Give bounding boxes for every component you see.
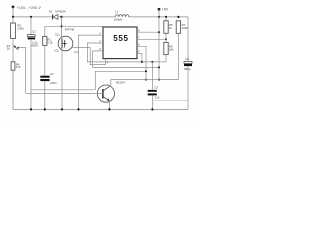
svg-text:IRF740: IRF740 (65, 27, 75, 31)
wire divider bottom to ground rail (13, 70, 188, 109)
svg-text:1k: 1k (169, 26, 173, 30)
wire drain lead (61, 37, 64, 39)
node junction rail/C2 (30, 16, 32, 18)
diode D1 UF4004 (49, 9, 66, 19)
node junction C2/ground rail (30, 108, 32, 110)
wire 555 pin4 stub to gate loop (90, 48, 105, 65)
svg-text:UF4004: UF4004 (55, 9, 66, 13)
node junction C1/ground rail (44, 108, 46, 110)
wire 555 pin8 (right top) (137, 31, 159, 33)
wire HV terminal stub (12, 7, 14, 17)
svg-text:220k: 220k (17, 27, 24, 31)
svg-text:G(1): G(1) (74, 52, 79, 54)
svg-text:C2: C2 (32, 30, 36, 34)
wire gate lead (71, 47, 90, 49)
wire top rail middle (drain node) (58, 16, 116, 18)
svg-text:1k: 1k (7, 47, 11, 51)
wire base feedback (26, 92, 103, 94)
node junction rail/R7 (177, 16, 179, 18)
wire drain branch (61, 17, 63, 37)
wire top rail left (HV) (13, 16, 52, 18)
node junction +5 line / H2 (158, 66, 160, 68)
svg-text:BC547: BC547 (116, 80, 125, 84)
svg-text:L1: L1 (115, 9, 119, 13)
svg-text:D(2): D(2) (55, 35, 60, 37)
node junction pin7/R5R6 (165, 38, 167, 40)
node junction rail/R2 (12, 16, 14, 18)
node junction rail/+5V (158, 16, 160, 18)
node junction drain/snubber (60, 25, 62, 27)
wire emitter (108, 101, 110, 110)
svg-text:555: 555 (113, 34, 128, 43)
svg-text:S(3): S(3) (54, 51, 59, 53)
node junction pin6/collector (145, 79, 147, 81)
wire source lead (61, 48, 63, 109)
wire faint lower link (152, 100, 188, 102)
svg-text:680µ: 680µ (184, 67, 191, 71)
svg-text:+100...+200 V: +100...+200 V (17, 6, 42, 10)
svg-text:+5V: +5V (162, 7, 169, 11)
node junction emitter/ground (108, 108, 110, 110)
node junction pin8/+5V line (158, 31, 160, 33)
svg-text:400V: 400V (31, 44, 38, 48)
wire R6 bottom (165, 55, 167, 62)
node junction +5 line / collector line (158, 79, 160, 81)
node junction pin5/bus (141, 61, 143, 63)
svg-text:100k: 100k (182, 26, 189, 30)
node junction source/ground rail (61, 108, 63, 110)
svg-text:2n2: 2n2 (155, 96, 160, 100)
node junction rail/R5 (165, 16, 167, 18)
wire 555 pin3 loop (left bottom) (93, 51, 159, 68)
resistor R6 10k (164, 42, 174, 54)
svg-text:10k: 10k (169, 47, 174, 51)
node junction C3/ground (151, 108, 153, 110)
wire collector (110, 80, 179, 87)
resistor R7 100k (176, 21, 188, 34)
svg-text:100n: 100n (50, 81, 57, 85)
svg-text:100µH: 100µH (114, 17, 123, 21)
wire top rail right (+5V) (129, 16, 188, 18)
svg-text:2.2k: 2.2k (47, 40, 53, 44)
wire 555 pin2 to timing bus (left mid) (87, 43, 166, 62)
node junction pin1 ground/rail (77, 108, 79, 110)
capacitor C1 100n (40, 72, 57, 109)
wire snubber top / reset wire (45, 25, 103, 27)
wire 555 pin6 (right third) (137, 46, 146, 79)
wire 555 pin7 (right second) (137, 38, 166, 40)
node +5V terminal (158, 8, 161, 11)
svg-text:D1: D1 (49, 9, 53, 13)
capacitor C3 2n2 (148, 62, 160, 110)
resistor R5 1k (164, 17, 173, 33)
resistor R1 2.2k (43, 37, 54, 46)
wire feedback tap (18, 48, 25, 94)
capacitor C4 680u (184, 17, 192, 110)
node junction C3 top (151, 61, 153, 63)
wire R5-R6 (165, 33, 167, 42)
wire R7 bottom to collector line (177, 33, 179, 79)
wire 555 pin1 ground drop (left top) (79, 35, 104, 109)
node junction pin6/H3 (145, 70, 147, 72)
wire +5V vertical feed (158, 9, 160, 79)
resistor R4 47k (11, 62, 21, 70)
capacitor C2 2.2u 400V (28, 17, 39, 110)
node HV output terminal (12, 6, 15, 9)
transistor T1 IRF740 MOSFET (54, 27, 79, 54)
IC1 555 (103, 27, 137, 59)
wire 555 pin5 (right bottom) to timing bus (137, 53, 142, 62)
resistor R2 220k (11, 17, 25, 39)
svg-text:47k: 47k (16, 65, 21, 69)
wire divider middle (12, 39, 14, 62)
wire snubber middle (44, 46, 46, 76)
potentiometer P1 wiper (7, 44, 20, 51)
node junction rail/drain (60, 16, 62, 18)
wire snubber drop (44, 26, 46, 36)
svg-text:C3: C3 (154, 85, 158, 89)
svg-text:C4: C4 (185, 57, 189, 61)
svg-text:C1: C1 (50, 72, 54, 76)
wire H3 Z-path to ground leg (31, 71, 146, 90)
transistor T2 BC547 (97, 80, 125, 102)
inductor L1 100uH (114, 9, 129, 21)
